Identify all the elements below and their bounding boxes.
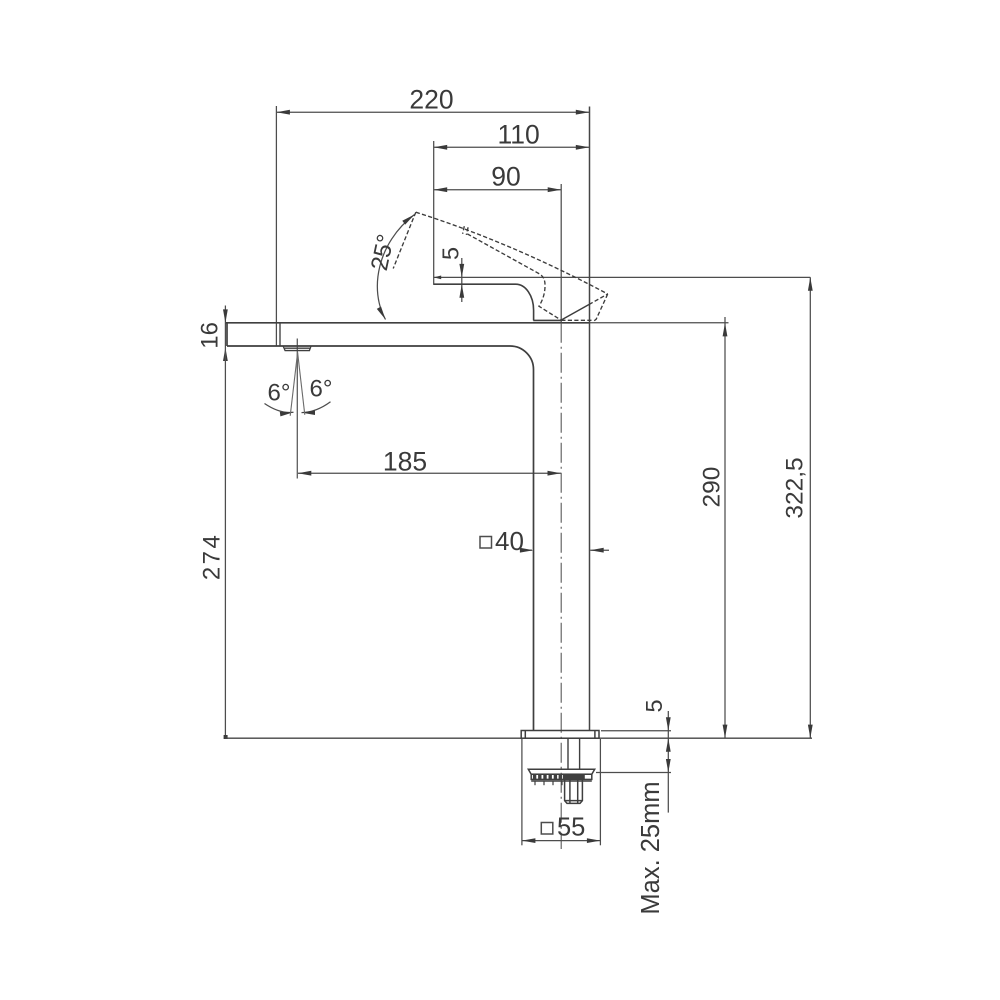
washer ribs <box>535 781 562 785</box>
svg-text:Max. 25mm: Max. 25mm <box>637 781 665 914</box>
lever bottom rear edge (solid part) <box>561 305 589 321</box>
svg-text:290: 290 <box>698 467 725 508</box>
svg-text:6°: 6° <box>310 376 333 403</box>
svg-text:322,5: 322,5 <box>781 457 808 518</box>
svg-text:5: 5 <box>641 699 667 712</box>
svg-text:16: 16 <box>197 322 224 349</box>
svg-text:110: 110 <box>497 119 539 149</box>
svg-text:274: 274 <box>199 533 226 581</box>
svg-text:5: 5 <box>438 247 464 260</box>
washer hatching <box>535 775 561 780</box>
svg-text:185: 185 <box>383 446 427 476</box>
svg-text:90: 90 <box>491 162 520 192</box>
svg-text:220: 220 <box>409 85 453 115</box>
svg-text:6°: 6° <box>268 380 291 407</box>
svg-text:55: 55 <box>557 814 585 842</box>
svg-text:40: 40 <box>495 526 524 556</box>
